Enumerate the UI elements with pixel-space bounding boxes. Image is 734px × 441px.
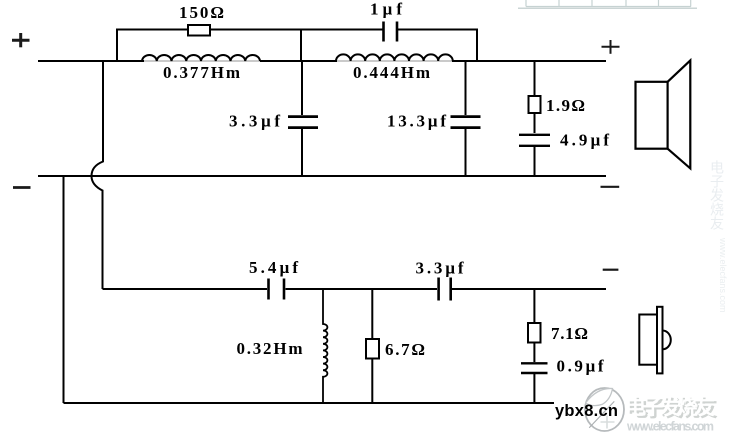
svg-text:www.elecfans.com: www.elecfans.com — [718, 237, 728, 313]
capacitor C3 13.3uf shunt — [465, 61, 467, 176]
zobel wire (bottom) — [533, 289, 535, 403]
minus rail (top circuit bottom) — [38, 175, 606, 177]
capacitor C2 3.3uf shunt — [301, 61, 303, 176]
crossover hop wire x=103 — [92, 61, 104, 289]
resistor R3 6.7 ohm wire — [371, 289, 373, 403]
svg-text:0.32Hm: 0.32Hm — [237, 339, 303, 358]
capacitor C7 0.9uf — [521, 363, 548, 373]
woofer speaker symbol — [636, 60, 691, 168]
tweeter speaker symbol — [639, 307, 670, 374]
resistor R2 1.9 ohm — [529, 96, 541, 113]
svg-text:电子发烧友: 电子发烧友 — [625, 395, 715, 419]
watermark logo circle — [585, 388, 624, 431]
svg-text:ybx8.cn: ybx8.cn — [555, 402, 619, 420]
top rail wire — [38, 60, 606, 62]
svg-text:150Ω: 150Ω — [179, 3, 224, 22]
inductor L2 0.444Hm — [336, 54, 453, 61]
svg-text:1.9Ω: 1.9Ω — [546, 96, 585, 115]
capacitor C4 4.9uf — [519, 135, 550, 146]
+ terminal right — [602, 40, 620, 54]
inductor L3 0.32Hm (vertical) — [323, 289, 327, 403]
resistor R3 6.7 ohm — [366, 339, 379, 359]
svg-text:电子发烧友: 电子发烧友 — [709, 160, 725, 230]
capacitor C6 3.3uf (bottom) — [439, 278, 451, 301]
inductor L1 0.377Hm — [142, 55, 260, 61]
svg-text:7.1Ω: 7.1Ω — [551, 324, 588, 343]
- terminal left — [13, 186, 31, 189]
+ terminal top-left — [12, 33, 30, 47]
bottom rail wire — [64, 402, 555, 404]
faint right-edge watermark — [709, 160, 728, 313]
faint spreadsheet grid top-right — [518, 0, 697, 8]
svg-text:www.elecfans.com: www.elecfans.com — [626, 420, 714, 434]
resistor R1 150 ohm — [188, 25, 210, 36]
svg-text:0.444Hm: 0.444Hm — [353, 63, 430, 82]
capacitor C1 1uf — [384, 22, 398, 42]
- terminal right (bottom circuit) — [603, 269, 619, 271]
capacitor C5 5.4uf — [269, 279, 285, 300]
wire 150ohm/1uf branch — [117, 30, 477, 62]
svg-text:1µf: 1µf — [370, 0, 402, 19]
- terminal right (top circuit) — [601, 186, 620, 188]
left vertical wire to bottom circuit — [63, 176, 65, 403]
svg-text:0.377Hm: 0.377Hm — [163, 63, 240, 82]
svg-text:6.7Ω: 6.7Ω — [385, 340, 425, 359]
zobel wire (top) — [534, 61, 536, 176]
resistor R4 7.1 ohm — [528, 323, 541, 343]
bottom circuit top rail — [103, 288, 607, 290]
gray underlay under inductors — [144, 60, 452, 62]
